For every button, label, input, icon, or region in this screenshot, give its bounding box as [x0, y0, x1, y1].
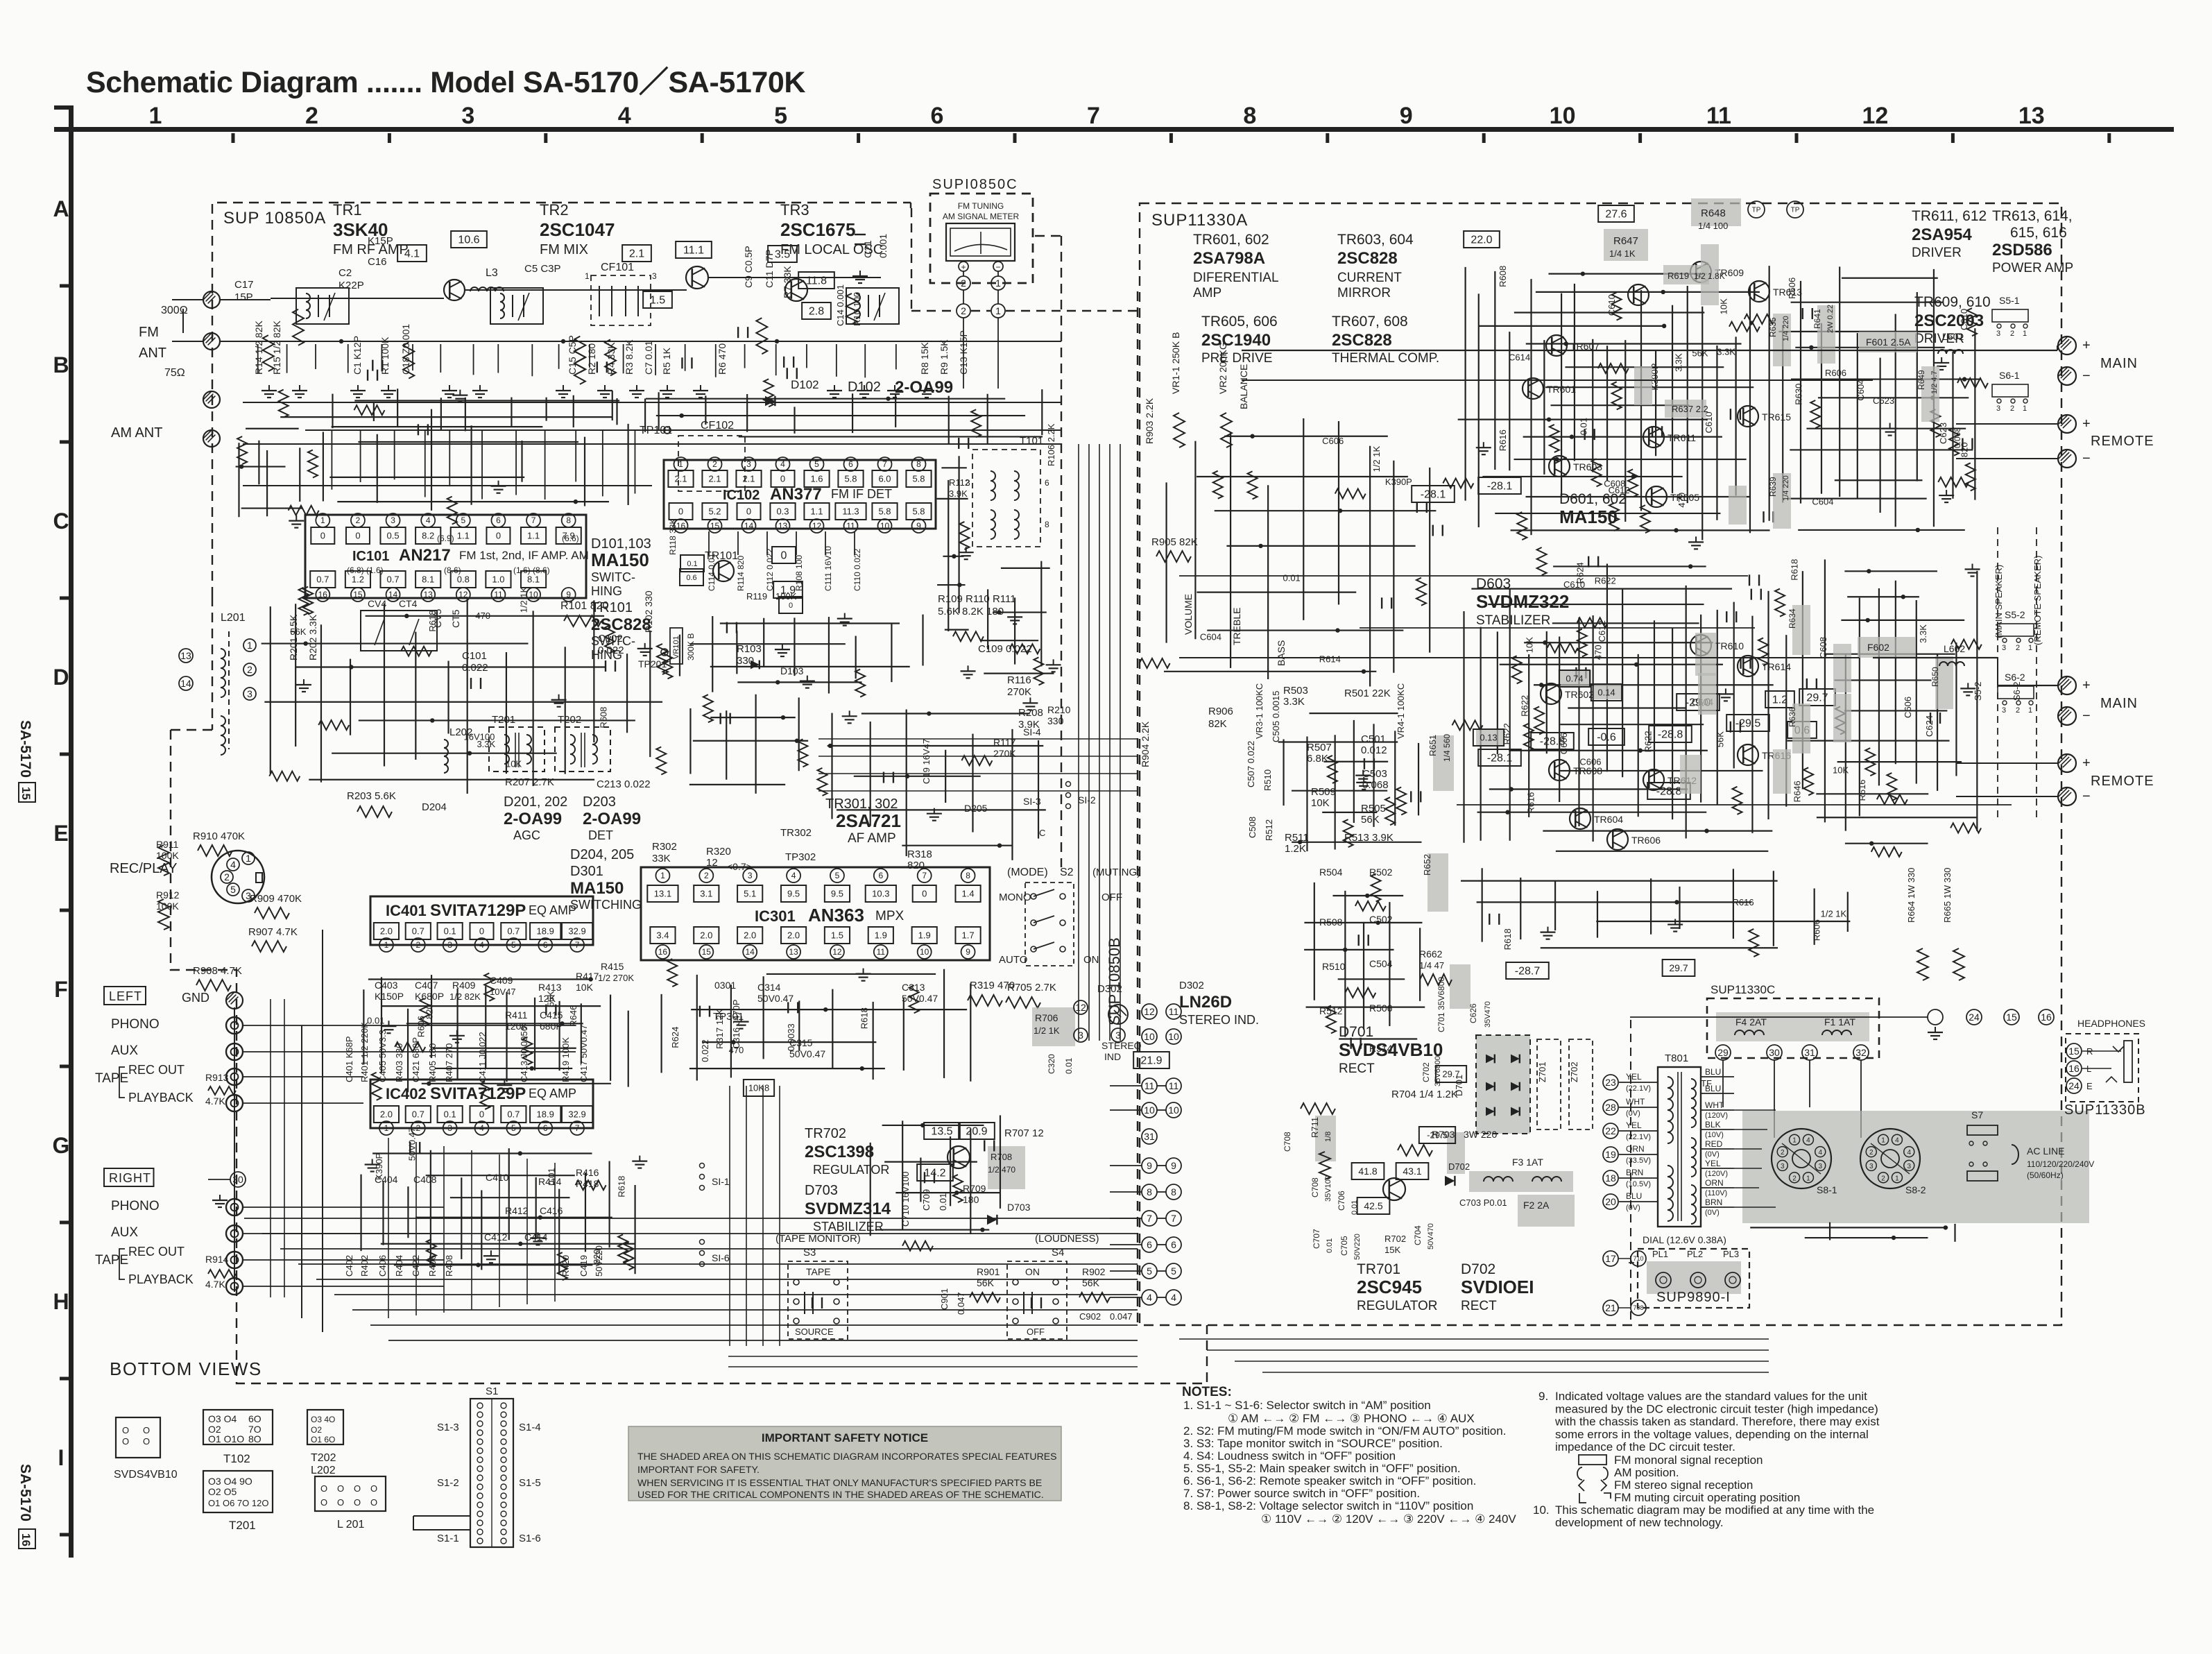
- svg-text:0.01: 0.01: [1351, 1200, 1359, 1215]
- svg-text:C320: C320: [1047, 1054, 1056, 1074]
- svg-text:SUPI0850C: SUPI0850C: [932, 177, 1018, 192]
- svg-text:C707: C707: [1312, 1229, 1321, 1249]
- svg-text:31: 31: [1144, 1131, 1155, 1142]
- svg-text:82K: 82K: [1208, 718, 1227, 730]
- svg-text:11: 11: [494, 590, 503, 599]
- svg-text:10V47: 10V47: [490, 987, 516, 997]
- svg-text:(6.6): (6.6): [562, 534, 579, 543]
- svg-text:3. S3: Tape monitor switch: 3. S3: Tape monitor switch in “SOURCE” p…: [1183, 1437, 1443, 1450]
- svg-text:OFF: OFF: [1027, 1327, 1045, 1337]
- svg-text:R501 22K: R501 22K: [1344, 688, 1391, 699]
- svg-text:(22.1V): (22.1V): [1626, 1133, 1651, 1141]
- svg-text:-28.1: -28.1: [1487, 753, 1513, 765]
- svg-text:1/4 100: 1/4 100: [1698, 221, 1728, 231]
- svg-text:STABILIZER: STABILIZER: [1476, 613, 1550, 628]
- svg-text:15: 15: [353, 590, 363, 599]
- svg-text:2SA721: 2SA721: [836, 810, 901, 831]
- svg-text:4: 4: [791, 871, 796, 880]
- svg-text:6: 6: [1171, 1239, 1176, 1250]
- svg-text:14: 14: [180, 678, 191, 689]
- svg-text:AGC: AGC: [513, 828, 540, 842]
- svg-text:PL3: PL3: [1723, 1249, 1739, 1259]
- svg-text:HING: HING: [591, 584, 622, 598]
- svg-text:10K8: 10K8: [748, 1083, 769, 1093]
- svg-text:TR611: TR611: [1667, 432, 1696, 443]
- svg-text:2SC828: 2SC828: [1337, 249, 1398, 268]
- svg-text:SUP 10850A: SUP 10850A: [223, 209, 326, 228]
- svg-text:6: 6: [1147, 1239, 1152, 1250]
- svg-text:F602: F602: [1867, 642, 1889, 653]
- svg-text:2.1: 2.1: [674, 474, 687, 484]
- svg-text:R207 2.7K: R207 2.7K: [505, 776, 554, 788]
- svg-text:1/2 82K: 1/2 82K: [449, 991, 481, 1002]
- svg-text:R15 1/2 82K: R15 1/2 82K: [271, 321, 282, 375]
- svg-text:TP: TP: [1752, 207, 1761, 214]
- svg-text:CT4: CT4: [399, 598, 418, 609]
- svg-text:C610: C610: [1563, 579, 1585, 590]
- svg-text:2.8: 2.8: [809, 306, 824, 318]
- svg-text:FM muting circuit operating po: FM muting circuit operating position: [1614, 1491, 1800, 1504]
- svg-text:12: 12: [458, 590, 468, 599]
- svg-text:C505 0.0015: C505 0.0015: [1271, 691, 1281, 742]
- svg-text:S8-2: S8-2: [1905, 1184, 1926, 1195]
- svg-text:TP302: TP302: [785, 851, 816, 863]
- svg-text:2: 2: [2016, 706, 2020, 715]
- svg-text:TR613, 614,: TR613, 614,: [1992, 208, 2073, 224]
- svg-text:15K: 15K: [1384, 1245, 1400, 1255]
- svg-text:R909 470K: R909 470K: [250, 893, 302, 905]
- svg-text:YEL: YEL: [1626, 1072, 1642, 1082]
- svg-text:28: 28: [1605, 1102, 1616, 1113]
- svg-text:6. S6-1, S6-2: Remote speake: 6. S6-1, S6-2: Remote speaker switch in …: [1183, 1474, 1476, 1487]
- svg-text:FM stereo signal reception: FM stereo signal reception: [1614, 1478, 1753, 1492]
- svg-text:56K: 56K: [290, 626, 306, 637]
- svg-text:C626: C626: [1468, 1003, 1478, 1023]
- svg-text:S5-2: S5-2: [2005, 609, 2025, 620]
- svg-text:R914: R914: [205, 1254, 229, 1265]
- svg-text:This schematic diagram may be: This schematic diagram may be modified a…: [1555, 1503, 1874, 1517]
- svg-text:(22.1V): (22.1V): [1626, 1084, 1651, 1093]
- svg-text:4.1: 4.1: [404, 248, 420, 260]
- svg-text:S1-2: S1-2: [437, 1477, 459, 1489]
- svg-text:I: I: [58, 1445, 65, 1470]
- svg-text:(REMOTE SPEAKER): (REMOTE SPEAKER): [2032, 556, 2043, 645]
- svg-text:R637 2.2: R637 2.2: [1672, 404, 1708, 414]
- svg-text:16: 16: [19, 1533, 33, 1546]
- svg-text:TR2: TR2: [540, 201, 569, 219]
- svg-text:5: 5: [835, 871, 840, 880]
- svg-text:5: 5: [774, 103, 787, 129]
- svg-text:15: 15: [710, 521, 720, 531]
- svg-text:F2 2A: F2 2A: [1523, 1200, 1550, 1211]
- svg-text:SA-5170: SA-5170: [17, 720, 33, 778]
- svg-text:0.7: 0.7: [316, 574, 329, 585]
- svg-text:10: 10: [1144, 1031, 1155, 1042]
- svg-text:6.0: 6.0: [878, 474, 891, 484]
- svg-text:LN26D: LN26D: [1179, 993, 1232, 1012]
- svg-text:C21: C21: [862, 240, 873, 258]
- svg-text:R317 12K: R317 12K: [714, 1009, 725, 1049]
- svg-text:D302: D302: [1179, 980, 1204, 991]
- svg-text:9: 9: [1400, 103, 1413, 129]
- svg-text:D103: D103: [780, 665, 804, 676]
- svg-text:K150P: K150P: [375, 991, 404, 1002]
- svg-text:RIGHT: RIGHT: [109, 1171, 151, 1185]
- svg-text:MAIN: MAIN: [2100, 696, 2138, 711]
- svg-text:R614: R614: [1319, 654, 1341, 665]
- svg-text:C403: C403: [375, 980, 398, 991]
- svg-text:R411: R411: [505, 1009, 528, 1021]
- svg-text:C13 K15P: C13 K15P: [958, 330, 969, 375]
- svg-text:TR605: TR605: [1670, 492, 1699, 503]
- svg-text:O1 O6 7O 12O: O1 O6 7O 12O: [208, 1498, 268, 1508]
- svg-text:4: 4: [1818, 1149, 1822, 1157]
- svg-text:-28.8: -28.8: [1658, 729, 1683, 741]
- svg-text:16: 16: [318, 590, 328, 599]
- svg-text:27.6: 27.6: [1605, 209, 1627, 221]
- svg-text:1/4 1K: 1/4 1K: [1609, 248, 1636, 259]
- svg-text:(110V): (110V): [1705, 1189, 1727, 1197]
- svg-text:R112: R112: [949, 477, 970, 488]
- svg-text:VR4-1 100KC: VR4-1 100KC: [1396, 683, 1406, 739]
- svg-text:8.1: 8.1: [527, 574, 540, 585]
- svg-text:+: +: [2082, 338, 2091, 353]
- svg-text:SVITA7129P: SVITA7129P: [430, 1084, 526, 1103]
- svg-text:(10.5V): (10.5V): [1626, 1180, 1651, 1188]
- svg-text:C5 C3P: C5 C3P: [524, 263, 561, 275]
- svg-text:(0V): (0V): [1705, 1209, 1720, 1217]
- svg-text:32.9: 32.9: [568, 1109, 585, 1120]
- svg-text:R706: R706: [1035, 1012, 1058, 1023]
- svg-text:R901: R901: [977, 1266, 1000, 1277]
- svg-text:2SC1675: 2SC1675: [780, 219, 855, 240]
- svg-text:6O: 6O: [248, 1413, 262, 1424]
- svg-text:7. S7: Power source switch: 7. S7: Power source switch in “OFF” posi…: [1183, 1487, 1420, 1500]
- svg-text:BLU: BLU: [1705, 1084, 1721, 1093]
- svg-text:R704 1/4 1.2K: R704 1/4 1.2K: [1391, 1089, 1458, 1100]
- svg-text:C416: C416: [540, 1205, 563, 1216]
- svg-text:56K: 56K: [1692, 348, 1708, 358]
- svg-text:R14 1/2 82K: R14 1/2 82K: [253, 321, 264, 375]
- svg-text:7: 7: [575, 940, 580, 950]
- svg-text:1.2: 1.2: [352, 574, 364, 585]
- svg-text:11.3: 11.3: [842, 506, 859, 517]
- svg-text:7: 7: [531, 515, 536, 525]
- svg-text:C17: C17: [234, 279, 254, 291]
- svg-text:O1 O1O: O1 O1O: [208, 1433, 244, 1444]
- svg-text:13: 13: [424, 590, 434, 599]
- svg-text:C612: C612: [1609, 485, 1630, 495]
- svg-text:SI-6: SI-6: [712, 1252, 730, 1263]
- svg-text:C604: C604: [1200, 631, 1221, 642]
- svg-text:B: B: [53, 352, 69, 377]
- svg-text:C623: C623: [1938, 423, 1948, 444]
- svg-text:R106 2.2K: R106 2.2K: [1046, 423, 1056, 466]
- svg-text:development of new technology.: development of new technology.: [1555, 1516, 1724, 1529]
- svg-text:2SC2003: 2SC2003: [1914, 312, 1984, 330]
- svg-text:0.01: 0.01: [1064, 1057, 1074, 1074]
- svg-text:IC102: IC102: [723, 488, 760, 503]
- svg-text:4.7K: 4.7K: [205, 1279, 225, 1290]
- svg-text:MONO: MONO: [999, 892, 1031, 903]
- svg-text:1: 1: [678, 459, 683, 469]
- svg-text:FM monoral signal reception: FM monoral signal reception: [1614, 1453, 1763, 1467]
- svg-text:41.8: 41.8: [1358, 1166, 1377, 1177]
- svg-text:16: 16: [2068, 1063, 2080, 1074]
- svg-text:DRIVER: DRIVER: [1912, 246, 1962, 260]
- svg-text:2W 0.22: 2W 0.22: [1826, 305, 1835, 333]
- svg-text:10K: 10K: [576, 982, 594, 993]
- svg-text:9: 9: [916, 521, 921, 531]
- svg-text:1: 1: [246, 853, 251, 864]
- svg-text:2: 2: [961, 278, 966, 289]
- svg-text:C101: C101: [462, 650, 487, 662]
- svg-text:R405 180: R405 180: [427, 1043, 438, 1082]
- svg-text:15: 15: [702, 947, 712, 957]
- svg-text:13: 13: [2018, 103, 2045, 129]
- svg-text:7: 7: [882, 459, 887, 469]
- svg-text:K15P: K15P: [368, 235, 393, 247]
- svg-text:IC101: IC101: [352, 549, 389, 564]
- svg-text:S5-1: S5-1: [1999, 295, 2020, 306]
- svg-text:A: A: [53, 196, 69, 221]
- svg-text:R634: R634: [1787, 608, 1797, 629]
- svg-text:4: 4: [1806, 1137, 1810, 1145]
- svg-text:R606: R606: [1825, 368, 1846, 378]
- svg-text:O2 O5: O2 O5: [208, 1486, 237, 1497]
- svg-text:WHT: WHT: [1705, 1100, 1724, 1110]
- svg-text:615, 616: 615, 616: [2010, 225, 2067, 241]
- svg-text:2: 2: [1792, 1175, 1797, 1182]
- svg-text:1.5: 1.5: [831, 930, 843, 941]
- svg-text:1: 1: [384, 940, 389, 950]
- svg-text:0.7: 0.7: [412, 926, 425, 937]
- svg-text:AUTO: AUTO: [999, 954, 1027, 966]
- svg-text:R6 470: R6 470: [717, 343, 728, 375]
- svg-text:SI-3: SI-3: [1023, 796, 1041, 807]
- svg-text:0: 0: [922, 889, 927, 899]
- svg-text:0: 0: [678, 506, 683, 517]
- svg-text:R622: R622: [1643, 731, 1654, 752]
- svg-text:56K: 56K: [977, 1277, 995, 1288]
- svg-text:1: 1: [384, 1123, 389, 1133]
- svg-text:THERMAL COMP.: THERMAL COMP.: [1332, 351, 1439, 366]
- svg-text:R616: R616: [1733, 897, 1754, 907]
- svg-text:O: O: [320, 1497, 327, 1508]
- svg-text:SVDMZ322: SVDMZ322: [1476, 591, 1569, 612]
- svg-text:R509: R509: [1311, 786, 1336, 798]
- svg-text:11: 11: [877, 947, 886, 957]
- svg-text:10.6: 10.6: [458, 235, 479, 246]
- svg-text:(33.5V): (33.5V): [1626, 1157, 1651, 1165]
- svg-text:3.4: 3.4: [656, 930, 669, 941]
- svg-text:7: 7: [1147, 1213, 1152, 1224]
- svg-text:6: 6: [496, 515, 501, 525]
- svg-text:0: 0: [789, 602, 793, 610]
- svg-text:0: 0: [479, 926, 484, 937]
- svg-text:2-OA99: 2-OA99: [583, 810, 641, 828]
- svg-text:C408: C408: [413, 1174, 437, 1185]
- svg-text:ORN: ORN: [1705, 1178, 1724, 1188]
- svg-text:R103: R103: [737, 643, 762, 655]
- svg-text:R507: R507: [1307, 742, 1332, 753]
- svg-text:3: 3: [1996, 404, 2000, 413]
- svg-text:R649: R649: [1917, 370, 1926, 390]
- svg-text:3.3K: 3.3K: [1673, 353, 1683, 372]
- svg-text:R109 R110 R111: R109 R110 R111: [938, 593, 1016, 605]
- svg-text:K390P: K390P: [1385, 477, 1412, 487]
- svg-text:8: 8: [916, 459, 921, 469]
- svg-text:MA150: MA150: [591, 549, 649, 570]
- svg-text:ON: ON: [1083, 954, 1099, 966]
- svg-text:1/4 220: 1/4 220: [1782, 475, 1790, 501]
- svg-text:470: 470: [475, 611, 490, 621]
- svg-text:(6.8) (1.6): (6.8) (1.6): [347, 565, 384, 575]
- svg-text:C508: C508: [1247, 817, 1258, 838]
- svg-text:C: C: [53, 509, 69, 534]
- svg-text:0: 0: [781, 550, 787, 562]
- svg-text:R409: R409: [452, 980, 476, 991]
- svg-text:FM 1st, 2nd, IF AMP. AM: FM 1st, 2nd, IF AMP. AM: [459, 549, 589, 562]
- svg-text:13: 13: [789, 947, 798, 957]
- svg-text:TR603, 604: TR603, 604: [1337, 232, 1414, 248]
- svg-text:TR602: TR602: [1565, 689, 1594, 700]
- svg-text:VOLUME: VOLUME: [1183, 594, 1194, 635]
- svg-text:56K: 56K: [1715, 731, 1725, 747]
- svg-text:+: +: [2082, 416, 2091, 432]
- svg-text:3: 3: [1818, 1163, 1822, 1170]
- svg-text:12: 12: [1862, 103, 1888, 129]
- svg-text:18.9: 18.9: [537, 1109, 554, 1120]
- svg-text:H: H: [53, 1289, 69, 1314]
- svg-text:D701: D701: [1339, 1024, 1373, 1040]
- svg-text:S6-1: S6-1: [1999, 370, 2020, 381]
- svg-text:0.0033: 0.0033: [786, 1023, 796, 1051]
- svg-text:1/2 1.8K: 1/2 1.8K: [1694, 271, 1725, 281]
- svg-text:10: 10: [1550, 103, 1576, 129]
- svg-text:TR702: TR702: [805, 1126, 846, 1141]
- svg-text:1.9: 1.9: [875, 930, 887, 941]
- svg-text:Indicated voltage values ar: Indicated voltage values are the standar…: [1555, 1390, 1867, 1403]
- svg-text:SI-1: SI-1: [712, 1176, 730, 1187]
- svg-text:O: O: [370, 1497, 377, 1508]
- svg-text:R913: R913: [205, 1072, 229, 1083]
- svg-text:50V0.47: 50V0.47: [406, 1127, 417, 1161]
- svg-text:① AM ←→ ② FM ←→ ③ PHONO ←→: ① AM ←→ ② FM ←→ ③ PHONO ←→ ④ AUX: [1228, 1412, 1475, 1425]
- svg-text:EQ AMP: EQ AMP: [529, 1086, 576, 1100]
- svg-text:10K: 10K: [506, 758, 522, 769]
- svg-text:11: 11: [1169, 1080, 1179, 1091]
- svg-text:R618: R618: [1789, 559, 1799, 581]
- svg-text:HEADPHONES: HEADPHONES: [2077, 1018, 2145, 1029]
- svg-text:680P: 680P: [540, 1021, 563, 1032]
- svg-text:0.1: 0.1: [444, 1109, 456, 1120]
- svg-text:4: 4: [479, 1123, 484, 1133]
- svg-text:18: 18: [1605, 1173, 1616, 1184]
- svg-text:1/4 47: 1/4 47: [1419, 960, 1444, 971]
- svg-text:TP: TP: [1791, 207, 1800, 214]
- svg-text:0.1: 0.1: [687, 560, 697, 568]
- svg-text:SI-4: SI-4: [1023, 726, 1041, 738]
- svg-text:AUX: AUX: [111, 1225, 138, 1240]
- svg-text:VR101: VR101: [672, 636, 680, 659]
- svg-text:S5-2: S5-2: [1973, 682, 1983, 701]
- svg-text:3.3K: 3.3K: [1918, 624, 1928, 643]
- svg-text:-0.6: -0.6: [1597, 732, 1616, 744]
- svg-text:1: 1: [2023, 404, 2027, 413]
- svg-text:7: 7: [575, 1123, 580, 1133]
- svg-text:2: 2: [415, 940, 420, 950]
- svg-text:F: F: [54, 977, 68, 1002]
- svg-text:0.7: 0.7: [387, 574, 400, 585]
- svg-text:C415: C415: [540, 1009, 563, 1021]
- svg-text:R906: R906: [1208, 706, 1233, 717]
- svg-text:ON: ON: [1025, 1266, 1040, 1277]
- svg-text:120K: 120K: [505, 1021, 528, 1032]
- svg-text:CF101: CF101: [601, 262, 634, 273]
- svg-text:+: +: [2082, 756, 2091, 771]
- svg-text:2SA798A: 2SA798A: [1193, 249, 1265, 268]
- svg-text:R503: R503: [1283, 685, 1308, 697]
- svg-text:YEL: YEL: [1705, 1159, 1721, 1168]
- svg-text:2: 2: [961, 305, 966, 316]
- svg-text:0.6: 0.6: [686, 574, 696, 582]
- svg-text:0: 0: [320, 531, 325, 541]
- svg-text:4: 4: [1907, 1149, 1911, 1157]
- svg-text:L3: L3: [486, 267, 498, 279]
- svg-text:F601 2.5A: F601 2.5A: [1866, 336, 1911, 348]
- svg-text:10K: 10K: [1524, 637, 1534, 653]
- svg-text:14: 14: [744, 521, 754, 531]
- svg-text:1/4 560: 1/4 560: [1442, 734, 1452, 762]
- svg-text:WHT: WHT: [1626, 1097, 1645, 1107]
- svg-text:C902: C902: [1079, 1311, 1101, 1322]
- svg-text:R402: R402: [359, 1255, 370, 1277]
- svg-text:C314: C314: [757, 982, 781, 993]
- svg-text:1.1: 1.1: [457, 531, 470, 541]
- svg-text:2SC1047: 2SC1047: [540, 219, 615, 240]
- svg-text:-29.5: -29.5: [1735, 718, 1761, 730]
- svg-text:REC OUT: REC OUT: [128, 1245, 185, 1259]
- svg-text:(LOUDNESS): (LOUDNESS): [1035, 1233, 1099, 1245]
- svg-text:VR1-1 250K B: VR1-1 250K B: [1170, 332, 1181, 395]
- svg-text:1: 1: [149, 103, 162, 129]
- svg-text:2: 2: [704, 871, 709, 880]
- svg-text:R646: R646: [1792, 781, 1803, 802]
- svg-text:Schematic Diagram ....... Mode: Schematic Diagram ....... Model SA-5170／…: [86, 66, 805, 99]
- svg-text:0: 0: [496, 531, 501, 541]
- svg-text:TR601, 602: TR601, 602: [1193, 232, 1269, 248]
- svg-text:R318: R318: [907, 849, 932, 860]
- svg-text:R414: R414: [538, 1176, 562, 1187]
- svg-text:F3 1AT: F3 1AT: [1512, 1157, 1543, 1168]
- svg-text:IC402: IC402: [386, 1085, 427, 1102]
- svg-text:WHEN SERVICING IT IS ESSENTIAL: WHEN SERVICING IT IS ESSENTIAL THAT ONLY…: [637, 1477, 1042, 1488]
- svg-text:10K: 10K: [1833, 765, 1849, 775]
- svg-text:710: 710: [1633, 1255, 1643, 1262]
- svg-text:31: 31: [1804, 1047, 1815, 1058]
- svg-text:MAIN: MAIN: [2100, 356, 2138, 371]
- svg-text:5: 5: [511, 1123, 516, 1133]
- svg-text:G: G: [53, 1133, 70, 1158]
- svg-text:BASS: BASS: [1276, 640, 1287, 666]
- svg-text:R662: R662: [1419, 948, 1443, 960]
- svg-text:2: 2: [1781, 1149, 1785, 1157]
- svg-text:15: 15: [2068, 1046, 2080, 1057]
- svg-text:5: 5: [814, 459, 819, 469]
- svg-text:21.9: 21.9: [1140, 1055, 1162, 1067]
- svg-text:S1-1: S1-1: [437, 1533, 459, 1544]
